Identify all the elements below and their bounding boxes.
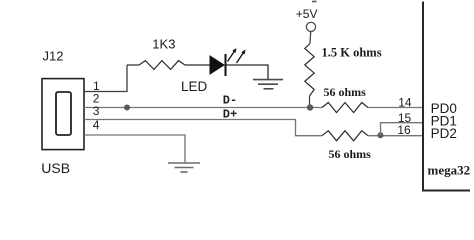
wire 5V circle to resistor — [309, 32, 312, 44]
svg-text:14: 14 — [398, 96, 412, 110]
svg-text:mega32: mega32 — [428, 162, 471, 177]
svg-text:3: 3 — [93, 104, 100, 118]
svg-text:D+: D+ — [223, 108, 237, 122]
net D- wire (pin 2 to 56-ohm resistor) — [84, 107, 322, 109]
resistor 56 ohms (bottom, D+ series) — [322, 131, 368, 141]
connector J12 outer body — [42, 79, 84, 150]
LED cathode bar — [225, 54, 227, 76]
svg-text:1.5 K ohms: 1.5 K ohms — [322, 46, 382, 60]
svg-text:4: 4 — [93, 118, 100, 132]
wire branch to pin 15 — [381, 123, 424, 136]
svg-text:56 ohms: 56 ohms — [329, 147, 372, 161]
wire pin1 corner to resistor — [127, 64, 139, 66]
pin 4 wire — [84, 135, 185, 163]
wire top resistor to pin 14 — [368, 107, 423, 109]
pin 1 wire — [84, 65, 127, 92]
svg-text:16: 16 — [397, 123, 411, 137]
svg-text:+5V: +5V — [296, 7, 318, 21]
+5V terminal circle — [306, 22, 315, 31]
wire 1.5K resistor to D- — [309, 96, 311, 108]
svg-text:LED: LED — [181, 79, 208, 94]
svg-text:PD2: PD2 — [431, 126, 457, 141]
svg-text:D-: D- — [223, 94, 237, 108]
junction dot pull-up to D- — [307, 104, 313, 110]
net D+ wire (pin 3) — [84, 120, 322, 136]
junction dot at USB D- — [124, 105, 130, 111]
ground symbol (LED) — [253, 80, 283, 89]
junction dot D+ branch — [378, 132, 384, 138]
svg-text:USB: USB — [41, 160, 70, 176]
LED diode — [210, 56, 224, 74]
resistor 1.5K pull-up — [305, 44, 314, 97]
wire bottom resistor to pin 16 — [368, 135, 423, 137]
LED emission arrow 2 — [237, 53, 244, 64]
LED emission arrow 1 — [228, 51, 235, 62]
connector J12 inner slot — [56, 92, 71, 135]
ground symbol (pin 4) — [168, 163, 200, 172]
clipped mark at top edge — [312, 1, 317, 3]
wire LED to ground — [226, 65, 268, 79]
wire resistor to LED — [185, 64, 210, 66]
svg-text:56 ohms: 56 ohms — [324, 85, 367, 99]
resistor 56 ohms (top, D- series) — [322, 103, 368, 113]
resistor 1K3 — [139, 61, 185, 70]
svg-text:J12: J12 — [43, 48, 64, 63]
svg-text:1K3: 1K3 — [152, 37, 175, 52]
IC mega32 left edge — [423, 2, 470, 191]
